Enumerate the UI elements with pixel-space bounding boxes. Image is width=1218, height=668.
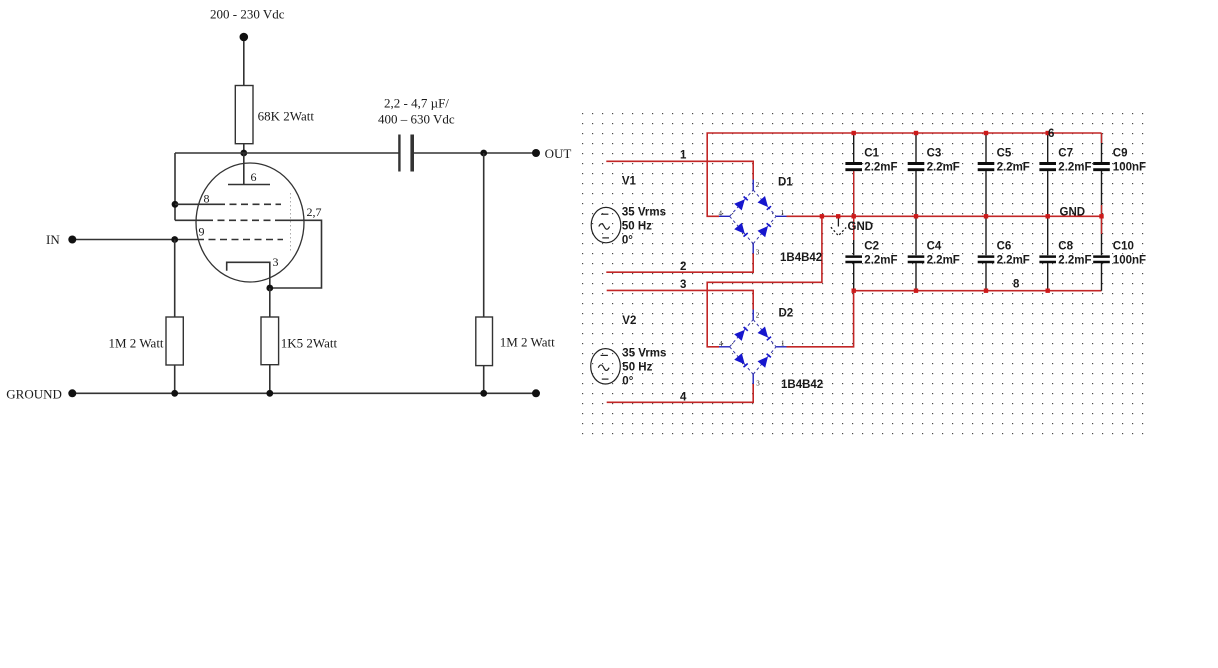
grid pin 2 dashed [206, 219, 281, 221]
svg-text:D1: D1 [778, 177, 793, 189]
svg-text:50 Hz: 50 Hz [622, 362, 652, 374]
D1 diode LL bar [744, 233, 748, 237]
wire 1K5 to ground [269, 365, 271, 394]
svg-text:C6: C6 [997, 241, 1012, 253]
red junction dots [820, 131, 1104, 293]
capacitor C1 [845, 164, 862, 170]
svg-text:2: 2 [756, 312, 760, 320]
svg-text:C4: C4 [927, 241, 942, 253]
svg-text:C9: C9 [1113, 148, 1128, 160]
D1 diode UL [734, 199, 745, 210]
svg-text:400 – 630 Vdc: 400 – 630 Vdc [378, 112, 455, 127]
D2 pin stubs [719, 310, 787, 385]
capacitor C10 [1093, 257, 1110, 262]
svg-text:200 - 230 Vdc: 200 - 230 Vdc [210, 7, 285, 22]
svg-text:35 Vrms: 35 Vrms [622, 207, 666, 219]
D1 diode LL [734, 223, 745, 234]
resistor 1K5 2Watt [261, 317, 279, 365]
red wiring [606, 133, 1101, 402]
junction ground 1K5 [266, 390, 273, 397]
tube cathode pin 3 [227, 262, 270, 288]
junction GND symbol [836, 214, 840, 218]
D2 diode UL bar [744, 327, 748, 331]
wire GND to D2 [707, 216, 822, 346]
svg-text:1B4B42: 1B4B42 [780, 252, 822, 264]
black component labels [622, 148, 1146, 388]
resistor 1M left [166, 317, 183, 365]
svg-text:1B4B42: 1B4B42 [781, 379, 823, 391]
junction net6 C1 [852, 131, 856, 135]
node 200-230Vdc terminal [240, 33, 249, 42]
resistor 68K 2Watt [235, 86, 253, 144]
svg-text:2.2mF: 2.2mF [927, 255, 960, 267]
svg-text:4: 4 [719, 210, 723, 218]
D1 diode UR bar [767, 206, 771, 210]
svg-text:2.2mF: 2.2mF [864, 255, 897, 267]
grid pin 8 lead [175, 203, 218, 205]
grid pin 9 dashed [197, 239, 283, 241]
D2 diode UR bar [767, 337, 771, 341]
svg-text:C10: C10 [1113, 241, 1134, 253]
capacitor C9 [1093, 164, 1110, 170]
svg-text:4: 4 [719, 340, 723, 348]
junction grid node [172, 201, 179, 208]
D1 diamond edges [730, 190, 777, 244]
node IN terminal [68, 236, 76, 244]
svg-text:0°: 0° [622, 376, 633, 388]
svg-text:3: 3 [756, 249, 760, 257]
svg-text:C3: C3 [927, 148, 942, 160]
grid pin 2 lead [175, 219, 206, 221]
wire column C1 red bits [853, 171, 855, 216]
wire IN lead [72, 239, 197, 241]
wire plate lead pin 6 [243, 153, 245, 185]
svg-text:3: 3 [680, 279, 686, 291]
D2 diode LR [758, 357, 769, 368]
wire top rail right [412, 152, 536, 154]
svg-text:2,2 - 4,7 µF/: 2,2 - 4,7 µF/ [384, 96, 449, 111]
svg-text:V2: V2 [622, 315, 636, 327]
column C7/C8 [1047, 133, 1049, 291]
capacitor C8 [1039, 257, 1056, 262]
junction net6 C7 [1046, 131, 1050, 135]
svg-text:35 Vrms: 35 Vrms [622, 348, 666, 360]
junction net8 C8 [1046, 289, 1050, 293]
svg-text:3: 3 [273, 255, 279, 269]
wire 1M left to ground [174, 365, 176, 393]
capacitor coupling right plate [410, 135, 414, 172]
svg-text:68K 2Watt: 68K 2Watt [258, 109, 315, 124]
junction cathode node [266, 285, 273, 292]
D1 diode UR [758, 196, 769, 207]
blue component labels [778, 177, 823, 392]
wire net8 rail [854, 290, 1102, 292]
wire cathode resistor [269, 288, 271, 317]
D1 diode UL bar [744, 197, 748, 201]
svg-text:D2: D2 [779, 308, 794, 320]
capacitor plates [845, 164, 1109, 263]
svg-text:100nF: 100nF [1113, 255, 1146, 267]
svg-text:C2: C2 [864, 241, 879, 253]
node ground end terminal [532, 389, 540, 397]
blue pin numbers [719, 181, 786, 388]
svg-text:2.2mF: 2.2mF [997, 255, 1030, 267]
junction GND C5 [984, 214, 988, 218]
D1 diode LR [758, 226, 769, 237]
svg-text:OUT: OUT [545, 146, 572, 161]
svg-text:9: 9 [199, 225, 205, 239]
junction GND C9 [1099, 214, 1103, 218]
svg-text:8: 8 [204, 192, 210, 206]
junction IN node [171, 236, 178, 243]
wire 1M right to ground [483, 366, 485, 394]
svg-text:GROUND: GROUND [6, 387, 62, 402]
junction out node [480, 150, 487, 157]
junction net8 C6 [984, 289, 988, 293]
svg-text:8: 8 [1013, 279, 1020, 291]
svg-text:IN: IN [46, 232, 60, 247]
D2 diamond edges [730, 320, 777, 375]
svg-text:2.2mF: 2.2mF [864, 162, 897, 174]
D1 diode LR bar [767, 223, 771, 227]
wire column C9 red bits [1101, 133, 1103, 143]
svg-text:V1: V1 [622, 176, 637, 188]
svg-text:1: 1 [781, 340, 785, 348]
svg-text:1: 1 [781, 209, 785, 217]
column C5/C6 [985, 133, 987, 291]
junction ground 1M left [171, 390, 178, 397]
capacitor C2 [845, 257, 862, 262]
svg-text:4: 4 [680, 392, 687, 404]
node GROUND terminal [68, 389, 76, 397]
wire R 68K to node [243, 144, 245, 153]
junction net6 C3 [914, 131, 918, 135]
svg-text:C7: C7 [1058, 148, 1073, 160]
node OUT terminal [532, 149, 540, 157]
junction net8 C4 [914, 289, 918, 293]
tube V1 envelope [196, 163, 304, 282]
wire top rail left [175, 152, 399, 154]
wire net4 [607, 384, 754, 402]
ground symbol [831, 219, 846, 236]
resistor 1M right [476, 317, 493, 366]
D1 pin stubs [719, 180, 787, 254]
source V1 [591, 207, 621, 242]
capacitor C4 [908, 257, 925, 262]
svg-text:50 Hz: 50 Hz [622, 221, 652, 233]
column C9/C10 [1101, 133, 1103, 291]
D2 diode LL bar [744, 364, 748, 368]
junction ground 1M right [480, 390, 487, 397]
wire pin 2,7 [270, 220, 322, 288]
svg-text:GND: GND [1060, 207, 1086, 219]
svg-text:1M 2 Watt: 1M 2 Watt [109, 336, 164, 351]
junction GND C1 [852, 214, 856, 218]
junction GND branch [820, 214, 824, 218]
svg-text:2.2mF: 2.2mF [997, 162, 1030, 174]
wire GROUND rail [72, 392, 536, 394]
svg-text:C1: C1 [864, 148, 879, 160]
svg-text:6: 6 [1048, 128, 1054, 140]
svg-text:2.2mF: 2.2mF [1058, 255, 1091, 267]
svg-text:C8: C8 [1058, 241, 1073, 253]
wire GND rail [787, 215, 1102, 217]
column C1/C2 [853, 133, 855, 291]
capacitor coupling left plate [398, 135, 400, 172]
wire net1 [606, 161, 753, 179]
bridge D2 [719, 310, 787, 385]
capacitor bank black columns [854, 133, 1102, 291]
svg-text:0°: 0° [622, 235, 633, 247]
svg-text:C5: C5 [997, 148, 1012, 160]
wire D2 output to net8 [787, 291, 854, 347]
junction GND C7 [1046, 214, 1050, 218]
grid dot field [581, 112, 1152, 436]
D2 diode UR [758, 327, 769, 338]
junction net6 C5 [984, 131, 988, 135]
source V2 [591, 349, 621, 384]
wire grid resistor left [174, 240, 176, 318]
junction anode node [240, 150, 247, 157]
svg-text:2.2mF: 2.2mF [927, 162, 960, 174]
svg-text:1K5 2Watt: 1K5 2Watt [281, 336, 338, 351]
wire net3 [607, 290, 754, 309]
bridge D1 [719, 180, 787, 254]
wire out resistor [483, 153, 485, 317]
grid pin 8 dashed [218, 203, 281, 205]
junction GND C3 [914, 214, 918, 218]
wire grid feedback vertical [174, 153, 176, 220]
capacitor C6 [978, 257, 995, 262]
svg-text:6: 6 [251, 170, 257, 184]
junction net8 C2 [852, 289, 856, 293]
D2 diode LR bar [767, 354, 771, 358]
D2 diode LL [734, 353, 745, 364]
svg-text:1M 2 Watt: 1M 2 Watt [500, 335, 555, 350]
capacitor C7 [1039, 164, 1056, 170]
svg-text:1: 1 [680, 150, 687, 162]
red net number labels [680, 128, 1085, 404]
wire net6 top rail [707, 133, 1101, 216]
column C3/C4 [915, 133, 917, 291]
svg-text:GND: GND [848, 221, 874, 233]
wire supply to R 68K [243, 41, 245, 86]
svg-text:2.2mF: 2.2mF [1058, 162, 1091, 174]
svg-text:100nF: 100nF [1113, 162, 1146, 174]
capacitor C3 [908, 164, 925, 170]
svg-text:2: 2 [680, 261, 686, 273]
tube anode plate [228, 184, 270, 186]
svg-text:2,7: 2,7 [307, 205, 322, 219]
tube inner screen dotted [290, 193, 292, 253]
svg-text:3: 3 [756, 380, 760, 388]
svg-text:2: 2 [756, 181, 760, 189]
D2 diode UL [734, 330, 745, 341]
wire net2 [606, 254, 753, 273]
capacitor C5 [978, 164, 995, 170]
